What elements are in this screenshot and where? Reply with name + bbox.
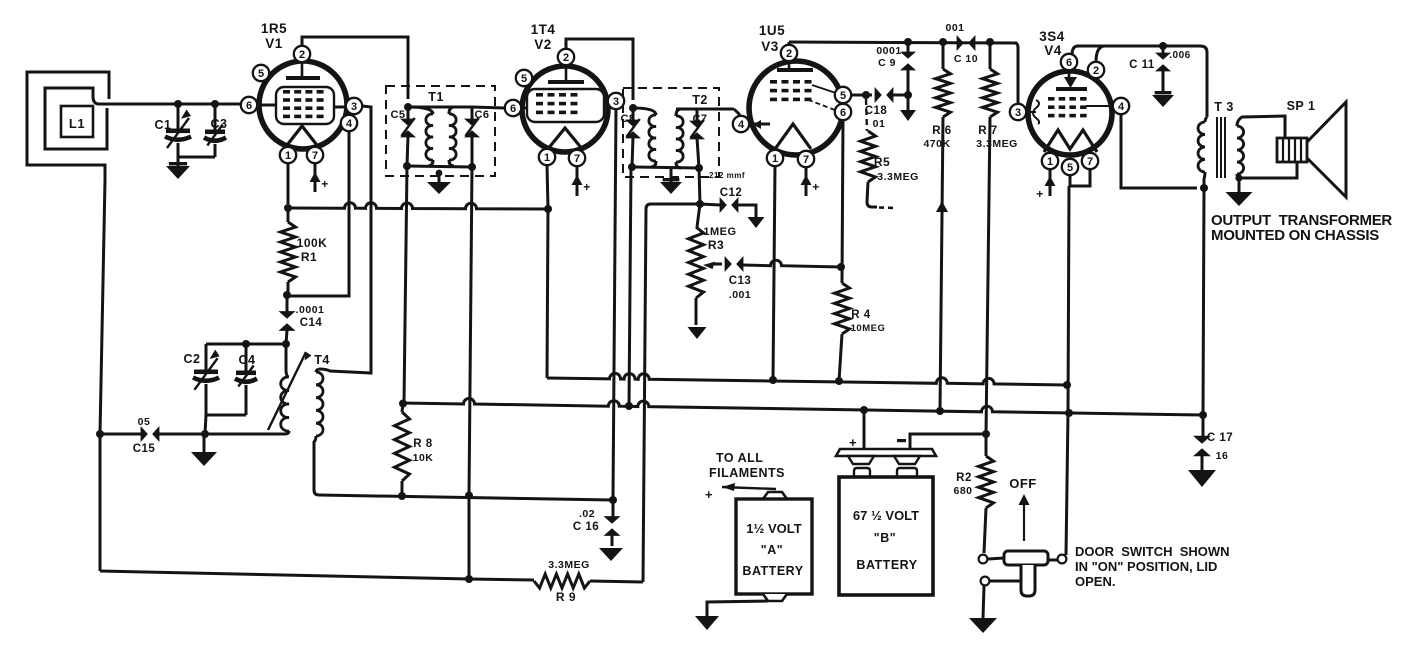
tube V1 pin 7 [307,147,323,163]
wire V3 plate up [788,42,791,45]
loop antenna L1 outer turn [27,72,109,180]
svg-text:R 6: R 6 [932,125,951,137]
capacitor C15 label [133,416,156,455]
filament stub V4 pin1 [1036,169,1055,201]
tube V4 pin 7 [1082,153,1098,169]
transformer T2 label [692,93,708,107]
B battery box [839,477,933,595]
node osc grid [282,340,290,348]
transformer T2 primary [633,108,656,167]
svg-text:1: 1 [772,153,778,165]
tube V2 pin 2 [558,49,574,65]
speaker SP1 label [1287,99,1316,113]
wire top bus [789,42,1017,43]
wire V3 pin1 down [773,166,775,380]
capacitor C10 label [945,22,978,65]
wire to C2 C4 [206,343,286,346]
wire V1 pin3 down [362,106,371,116]
svg-text:C2: C2 [184,352,201,366]
svg-text:C13: C13 [729,275,752,287]
tube V1 plate [286,63,320,78]
tube V1 pin 6 [241,97,257,113]
wire A battery to ground [707,601,768,616]
wire C12 line [700,204,720,205]
capacitor C15 [141,426,160,442]
svg-text:V4: V4 [1044,43,1062,58]
node bus battery plus [860,406,868,414]
wire B plus bus [402,399,1203,416]
tube V4 pin 5 [1062,159,1078,175]
A battery plus arrow [705,483,776,502]
oscillator coil T4 primary bottom [284,431,289,434]
svg-text:6: 6 [510,103,516,115]
svg-text:TO ALL: TO ALL [716,451,763,465]
transformer T2 secondary [676,109,683,168]
tube V3 plate [777,62,813,70]
capacitor C17 label [1207,432,1233,462]
tube V2 grids [536,93,578,114]
ground below T1 [427,170,451,194]
caption to all filaments [709,451,785,480]
node bus V4 end [1063,381,1071,389]
svg-text:V1: V1 [265,36,283,51]
svg-text:"A": "A" [761,543,783,557]
tube V1 grid box [276,87,334,124]
resistor R5 [861,99,878,207]
wire V4 pin3 drop [1015,43,1018,104]
wire V4 pin2 up [1096,46,1104,62]
svg-text:C 9: C 9 [878,57,896,69]
wire x469 to bottom bus [468,495,471,579]
tube V3 grids [770,80,812,101]
svg-text:3: 3 [613,96,619,108]
svg-text:10MEG: 10MEG [851,323,886,334]
capacitor C9 [900,42,916,95]
resistor R3 volume control [689,204,704,325]
svg-text:SP 1: SP 1 [1287,99,1316,113]
svg-text:3.3MEG: 3.3MEG [877,171,919,183]
svg-text:"B": "B" [874,531,896,545]
B battery text [853,508,919,572]
svg-text:C8: C8 [620,113,635,125]
node T3 primary bottom [1200,184,1208,192]
ground below A battery [695,616,719,630]
svg-text:4: 4 [738,119,745,131]
node C2 ground [201,430,209,438]
svg-text:4: 4 [346,118,353,130]
tube V3 pin 5 [835,87,851,103]
node bus V4 switch [1065,409,1073,417]
node R8 top [399,400,407,408]
switch OFF arrow [1019,494,1030,541]
svg-text:L1: L1 [69,116,85,131]
node T2 R3 junction [696,200,704,208]
svg-text:470K: 470K [923,138,950,150]
tube V2 label [531,22,556,52]
svg-text:1T4: 1T4 [531,22,556,37]
svg-text:1: 1 [1047,156,1053,168]
svg-text:T4: T4 [314,353,330,367]
transformer T1 primary [408,107,433,166]
node bottom bus x469 [465,575,473,583]
tube V1 pin 5 [253,65,269,81]
resistor R1 label [297,236,328,264]
wire C14 to T4 [286,344,288,377]
svg-text:C 10: C 10 [954,53,978,65]
node R2 top [982,430,990,438]
svg-text:2: 2 [563,52,569,64]
node T2 bottom left [628,163,636,171]
variable capacitor C1 [165,104,191,157]
node T1 top [404,103,412,111]
tube V3 pin 4 [733,116,749,132]
door switch bar [1004,551,1048,565]
wire L1 to V1 grid [111,103,241,106]
resistor R4 [835,283,850,381]
svg-text:+: + [705,487,713,502]
svg-text:OPEN.: OPEN. [1075,574,1115,589]
resistor R3 wiper arrow [703,262,722,270]
A battery bottom contact [763,594,787,601]
svg-text:R 4: R 4 [851,309,871,321]
capacitor C14 [279,295,296,344]
node T1 bottom right [468,163,476,171]
svg-text:001: 001 [945,22,964,34]
svg-text:DOOR SWITCH SHOWN: DOOR SWITCH SHOWN [1075,544,1230,559]
svg-text:BATTERY: BATTERY [742,564,803,578]
svg-text:+: + [812,180,820,194]
wire switch lower contact [990,580,1021,583]
wire AF return corner [643,204,700,582]
svg-text:C 16: C 16 [573,521,599,533]
resistor R1 [281,208,296,293]
svg-text:5: 5 [258,68,264,80]
svg-text:OFF: OFF [1009,476,1037,491]
node bus R6 join [936,407,944,415]
wire switch left lead [988,558,1004,559]
tube V1 grid lead to pin 3 [334,106,346,109]
wire C15 line [100,433,284,436]
node C3 top [211,100,219,108]
transformer T3 core [1217,117,1225,178]
transformer T1 label [428,90,444,104]
ground below C11 [1152,91,1174,107]
svg-text:2: 2 [299,49,305,61]
tube V4 plate [1056,71,1087,89]
wire T1 down to R8 [404,166,407,403]
trimmer capacitor C6 [464,107,480,167]
A battery text [742,521,803,578]
switch OFF label [1009,476,1037,491]
svg-text:R5: R5 [874,155,890,169]
tube V2 pin 1 [539,149,555,165]
svg-text:T 3: T 3 [1214,100,1234,114]
capacitor C2 label [184,352,201,366]
resistor R7 [983,42,998,434]
wire T2 secondary to V3 grid [734,109,740,115]
filament stub V1 pin 7 [310,163,329,192]
svg-text:T2: T2 [692,93,708,107]
wire V4 plate line [1072,46,1207,117]
wire lower contact to ground [983,586,984,618]
capacitor C18 [866,87,908,103]
svg-text:C5: C5 [390,109,405,121]
loop antenna L1 label [69,116,85,131]
tube V2 envelope [522,66,608,152]
svg-text:BATTERY: BATTERY [856,558,917,572]
svg-text:212 mmf: 212 mmf [709,171,745,180]
ground below C17 [1188,470,1216,487]
svg-text:0001: 0001 [876,45,901,57]
svg-text:5: 5 [1067,162,1073,174]
svg-text:3.3MEG: 3.3MEG [548,559,590,571]
tube V1 pin 2 [294,46,310,62]
svg-text:+: + [1036,187,1044,201]
svg-text:IN "ON" POSITION, LID: IN "ON" POSITION, LID [1075,559,1217,574]
wire C13 to R4 node [743,260,841,267]
wire T2 right down [699,168,700,204]
coil T4 adjust arrow [268,352,312,430]
resistor R4 label [851,309,886,334]
resistor R6 label [923,125,951,150]
tube V1 label [261,21,287,51]
transformer T1 box [386,86,495,176]
svg-text:R 7: R 7 [978,125,997,137]
svg-text:R 8: R 8 [413,438,433,450]
svg-text:C12: C12 [720,187,743,199]
svg-text:FILAMENTS: FILAMENTS [709,466,785,480]
tube V4 pin 1 [1042,153,1058,169]
svg-text:V3: V3 [761,39,779,54]
svg-text:01: 01 [873,118,886,130]
tube V1 pin 3 [346,98,362,114]
capacitor C12 [720,197,739,213]
tube V3 diode lead [749,120,770,129]
svg-text:C14: C14 [300,317,323,329]
transformer T2 box [623,88,719,177]
tube V2 pin 3 [608,93,624,109]
resistor R2 label [953,472,972,497]
ground below C16 [599,548,623,561]
wire AVC line [288,203,548,209]
node C13 R4 [837,263,845,271]
tube V4 pin 4 [1113,98,1129,114]
B battery minus label [897,439,906,442]
capacitor C10 [957,35,976,51]
tube V2 pin 5 [516,70,532,86]
node C18 right [904,91,912,99]
switch contact lower [981,577,990,586]
node R1 bottom [283,291,291,299]
tube V1 pin 4 [341,115,357,131]
wire V4 pin4 down [1121,114,1197,188]
transformer T1 secondary [449,107,456,166]
svg-text:7: 7 [1087,156,1093,168]
svg-text:7: 7 [803,154,809,166]
caption output transformer [1211,212,1392,244]
B battery terminals [854,468,917,476]
svg-text:V2: V2 [534,37,552,52]
oscillator coil T4 secondary [316,369,323,436]
svg-text:7: 7 [574,153,580,165]
resistor R9 [534,574,643,588]
svg-text:1: 1 [544,152,550,164]
svg-text:MOUNTED ON CHASSIS: MOUNTED ON CHASSIS [1211,227,1379,244]
loop antenna L1 label box [61,106,93,137]
resistor R7 label [976,125,1018,150]
tube V1 envelope [259,61,347,149]
node C1 top [174,100,182,108]
trimmer capacitor C3 [204,104,226,157]
loop antenna L1 inner turn [45,88,111,149]
svg-text:C15: C15 [133,443,156,455]
tube V4 pin 6 [1061,54,1077,70]
wire pin4 jog [287,131,349,296]
tube V3 pin 6 [835,104,851,120]
resistor R8 label [413,438,434,464]
capacitor C11 label [1129,50,1191,71]
svg-text:6: 6 [840,107,846,119]
transformer T2 top rail [676,108,734,111]
tube V2 grid box [527,89,604,122]
svg-text:16: 16 [1216,450,1229,462]
capacitor C12 label [709,171,745,199]
svg-text:C7: C7 [692,113,707,125]
node T1 bottom left [403,162,411,170]
svg-text:5: 5 [840,90,846,102]
node C15 line [96,430,104,438]
transformer T1 bottom rail [407,166,472,167]
arrow below C9 node [900,95,916,121]
svg-text:R1: R1 [301,250,317,264]
capacitor C17 [1193,415,1211,470]
svg-text:6: 6 [1066,57,1072,69]
svg-text:R3: R3 [708,238,724,252]
caption door switch [1075,544,1230,589]
wire T1 secondary to V2 grid [472,107,505,108]
trimmer capacitor C5 [400,107,416,166]
svg-text:.001: .001 [729,289,751,301]
capacitor C13 [725,256,744,272]
svg-text:4: 4 [1118,101,1125,113]
capacitor C8 label [620,113,635,125]
capacitor C11 [1155,46,1171,93]
resistor R3 label [703,226,736,252]
transformer T2 bottom rail [632,167,699,168]
wire V3 pin6 down [841,120,843,283]
svg-text:+: + [583,180,591,194]
tube V1 pin 1 [280,147,296,163]
trimmer capacitor C7 [689,109,705,168]
svg-text:1½ VOLT: 1½ VOLT [746,521,801,536]
svg-text:.02: .02 [579,508,595,520]
tube V4 envelope [1028,71,1112,155]
ground below C1 [166,157,190,179]
svg-text:1: 1 [285,150,291,162]
wire C2 C4 bottom [206,414,246,417]
ground below switch [969,618,997,633]
ground below R3 [688,327,707,339]
wire T4 secondary top to V1 pin3 [319,115,371,373]
svg-text:C6: C6 [474,109,489,121]
wire V1 plate to T1 [302,37,408,99]
wire V4 pin5 pin7 join [1068,169,1090,412]
svg-text:T1: T1 [428,90,444,104]
node T4 line x469 [465,492,473,500]
node C9 top [904,38,912,46]
tube V3 pin 2 [781,45,797,61]
node T2 top [629,104,637,112]
svg-text:3.3MEG: 3.3MEG [976,138,1018,150]
wire C12 to ground [738,205,756,217]
switch contact left [979,555,988,564]
B battery lid [836,449,936,464]
tube V4 pin 2 [1088,62,1104,78]
wire B battery minus [910,434,986,449]
node bus C17 [1199,411,1207,419]
svg-text:C 17: C 17 [1207,432,1233,444]
wire C1 C3 bottom [178,144,215,157]
node R8 bottom [398,492,406,500]
svg-text:+: + [849,435,857,450]
wire T1 right down [469,167,472,495]
tube V1 grid lead from pin 6 [257,104,276,107]
svg-text:100K: 100K [297,236,328,250]
capacitor C4 label [239,353,256,367]
node AVC at V2 pin1 [544,205,552,213]
ground below T3 [1226,179,1253,206]
resistor R9 label [548,559,590,604]
node T2 bottom right [695,164,703,172]
capacitor C7 label [692,113,707,125]
wire T2 bottom left down [629,167,631,406]
tube V4 pin3 leader [1027,100,1039,124]
wire L1 down left side [100,180,105,571]
tube V3 leader dashes [806,85,836,110]
node R6 top [939,38,947,46]
trimmer capacitor C8 [625,108,641,167]
speaker SP1 cone [1307,102,1346,197]
tube V3 pin 7 [798,151,814,167]
transformer T3 secondary [1237,116,1297,178]
svg-text:C3: C3 [211,117,228,131]
tube V3 filament [775,124,811,149]
wire V4 line to switch [1066,413,1068,555]
wire B battery plus [863,410,866,450]
node R7 top [986,38,994,46]
speaker SP1 voice coil [1277,138,1307,162]
tube V2 filament [547,128,583,150]
svg-text:3: 3 [1015,107,1021,119]
node bus R4 [835,377,843,385]
B battery plus label [849,435,857,450]
filament stub V2 pin 7 [572,166,591,196]
svg-text:2: 2 [1093,65,1099,77]
capacitor C6 label [474,109,489,121]
variable capacitor C2 [193,344,220,415]
svg-text:67 ½ VOLT: 67 ½ VOLT [853,508,919,523]
transformer T1 top rail [408,106,472,109]
svg-text:2: 2 [786,48,792,60]
wire filament bus [547,373,1067,385]
capacitor C16 [604,500,621,546]
tube V4 pin 3 [1010,104,1026,120]
svg-text:+: + [321,177,329,191]
tube V2 grid lead from pin 6 [521,107,527,110]
wire V2 pin3 down to C16 node [613,109,616,498]
tube V2 pin 6 [505,100,521,116]
resistor R8 [395,403,410,496]
